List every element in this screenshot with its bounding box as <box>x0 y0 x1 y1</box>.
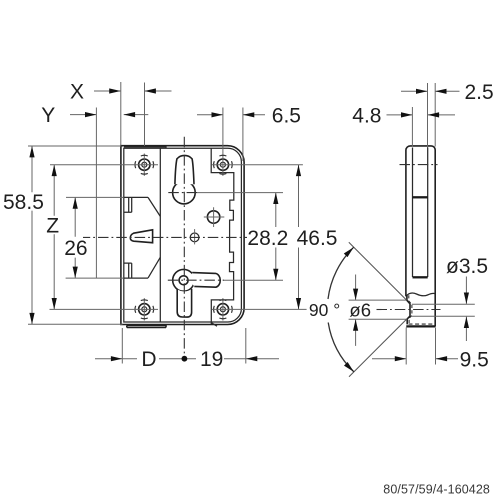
screw hole top-right <box>214 154 233 176</box>
keyhole horizontal centerline <box>168 192 197 194</box>
small center hole <box>190 233 199 242</box>
side hole axis centerline <box>377 309 441 311</box>
svg-text:2.5: 2.5 <box>465 81 494 104</box>
screw hole top-left <box>135 154 154 176</box>
svg-text:ø3.5: ø3.5 <box>446 255 488 278</box>
main horizontal centerline <box>83 236 247 238</box>
side body outline <box>406 146 435 327</box>
stamped cup outline with notched right edge <box>211 148 234 324</box>
keyhole circle <box>173 181 196 204</box>
svg-text:Z: Z <box>46 215 59 238</box>
cup corner chamfer <box>211 323 217 327</box>
key shank <box>177 289 191 317</box>
lock plate outer outline <box>121 146 244 325</box>
spigot nose outline <box>407 295 410 325</box>
slot side walls <box>413 148 428 278</box>
svg-text:Y: Y <box>41 104 55 127</box>
face strip right edge <box>159 148 161 322</box>
top clip tab on strip <box>124 197 161 216</box>
screw hole bottom-right <box>214 298 233 320</box>
arc arrowheads <box>344 247 354 257</box>
side bottom edge (thick) <box>406 325 435 327</box>
svg-text:9.5: 9.5 <box>460 348 489 371</box>
key horizontal centerline <box>168 279 224 281</box>
keyhole stem <box>175 155 194 184</box>
key hub hole <box>179 276 188 285</box>
svg-text:26: 26 <box>64 237 87 260</box>
svg-text:46.5: 46.5 <box>297 227 338 250</box>
screw hole bottom-left <box>135 298 154 320</box>
slot bottom edge (thick) <box>413 276 428 278</box>
svg-text:D: D <box>141 348 156 371</box>
bottom clip tab on strip <box>124 257 161 278</box>
svg-text:ø6: ø6 <box>349 299 371 320</box>
FRONT VIEW of lock case <box>121 146 244 328</box>
break wave line <box>406 293 435 296</box>
svg-text:4.8: 4.8 <box>352 104 381 127</box>
SIDE VIEW <box>377 146 475 327</box>
dim 90 degrees: cone lines <box>349 242 407 376</box>
DIMENSIONS <box>3 80 494 376</box>
top flange foot (thick stretch) <box>124 146 166 148</box>
spigot nose dashed thread line <box>409 295 412 324</box>
svg-text:X: X <box>70 80 84 103</box>
key (bow) <box>173 269 195 291</box>
svg-text:28.2: 28.2 <box>247 227 288 250</box>
dashed line above bottom edge <box>409 323 434 325</box>
keyhole vertical centerline <box>183 137 185 356</box>
svg-text:80/57/59/4-160428: 80/57/59/4-160428 <box>383 483 490 497</box>
key bit arm <box>191 273 220 288</box>
bottom flange foot protruding below plate <box>127 324 166 327</box>
svg-text:58.5: 58.5 <box>3 191 44 214</box>
hole lines o3.5 <box>412 304 475 316</box>
svg-text:90 °: 90 ° <box>309 300 340 320</box>
bolt (latch wedge) <box>130 230 152 243</box>
cross hole <box>207 211 219 223</box>
90 degree arc (split around text) <box>328 247 354 299</box>
svg-text:19: 19 <box>200 348 223 371</box>
side screw-row centerline <box>400 164 438 166</box>
lock plate inner outline (double line) <box>124 148 242 322</box>
slot top edge (thick) <box>413 196 428 198</box>
centerlines of front view <box>83 137 247 356</box>
svg-text:6.5: 6.5 <box>272 104 301 127</box>
